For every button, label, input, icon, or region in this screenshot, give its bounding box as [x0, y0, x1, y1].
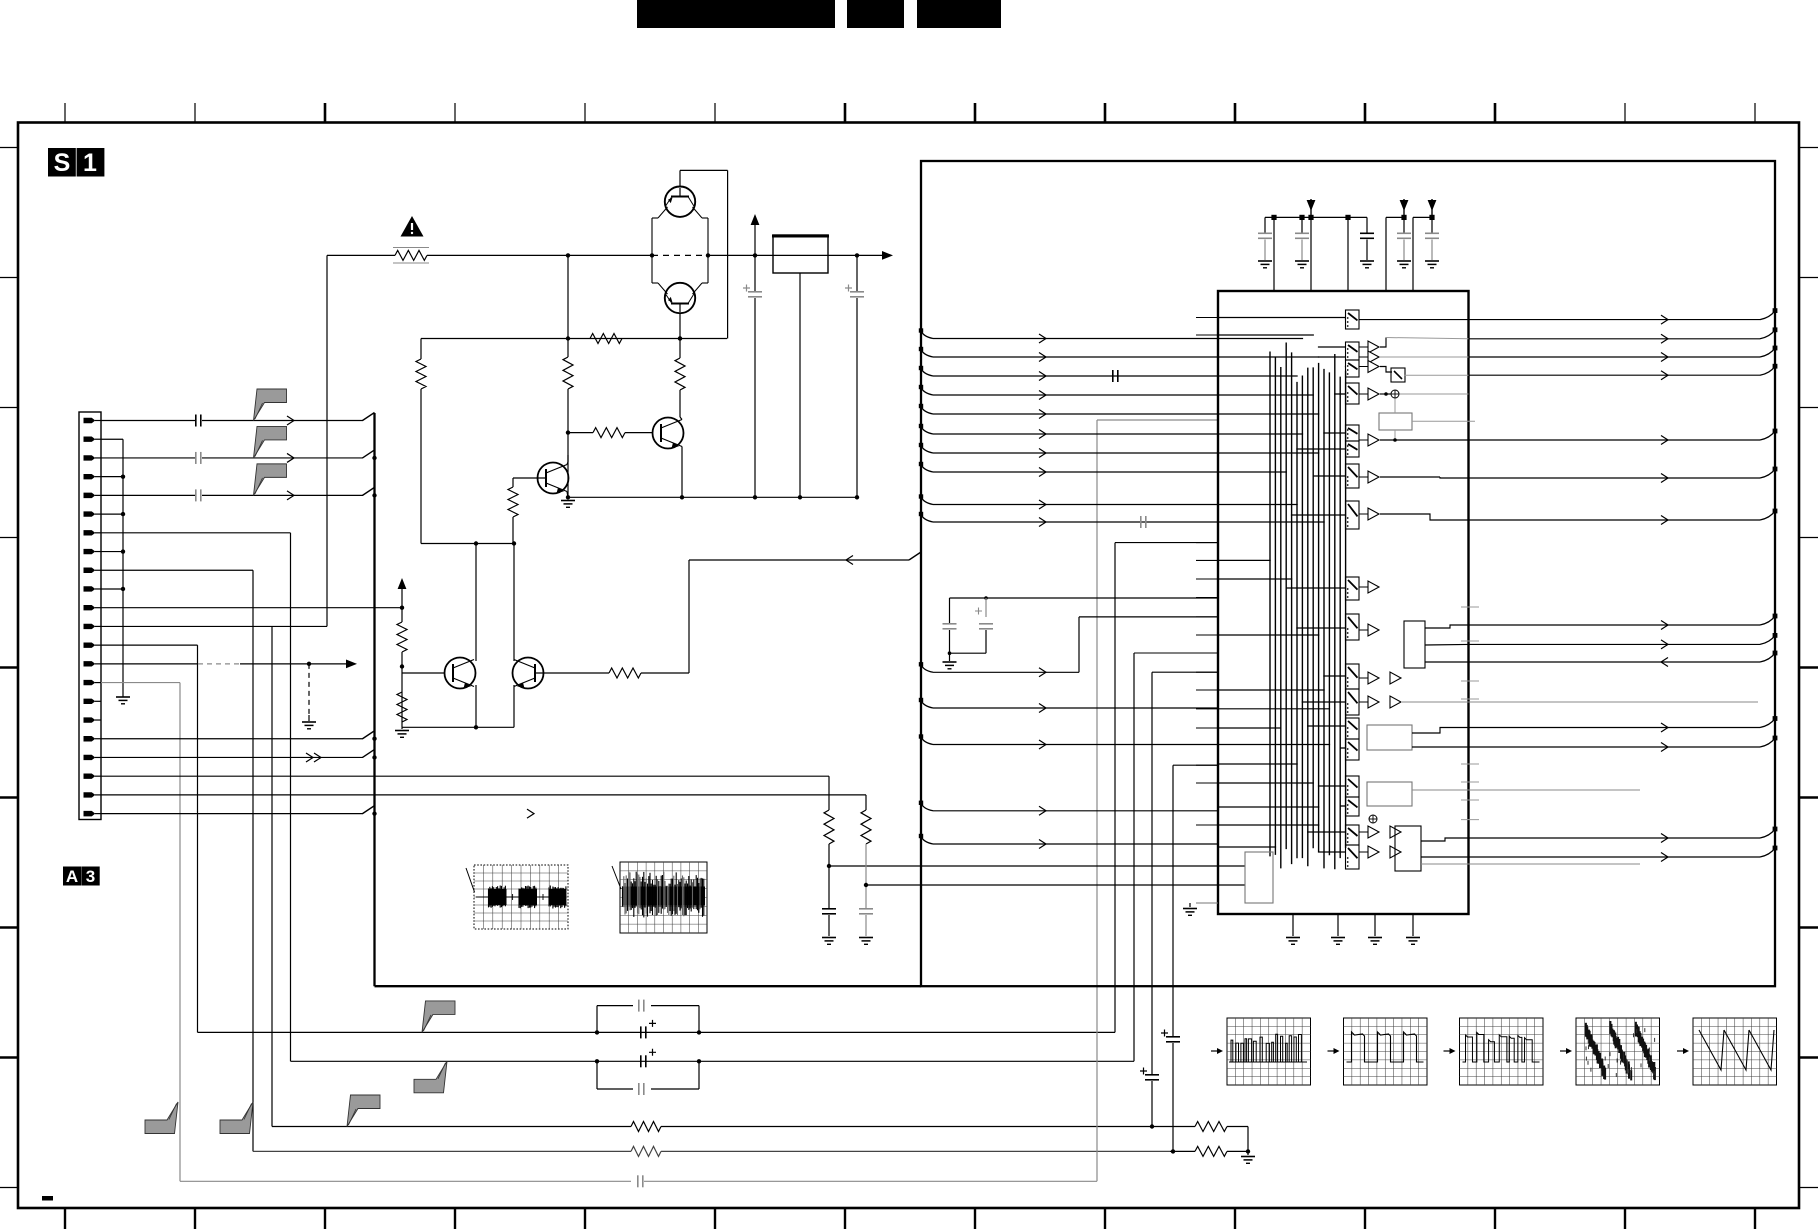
transistor Q3 [653, 418, 684, 449]
riser x1173 with cap C11 [1172, 1043, 1174, 1151]
redacted title block bar 1 [637, 0, 835, 28]
wire pin9 down to lower net [101, 569, 253, 571]
wire x680 [679, 339, 681, 359]
IC sub-block B1 [1391, 368, 1405, 382]
capacitor C4 on x755 [748, 291, 762, 293]
wire pin15 grey down to lower net [101, 682, 180, 684]
decoupling caps C14/C15 [950, 597, 1219, 599]
waveform scope W4 [1560, 1050, 1570, 1052]
junction bus pin5 [372, 493, 376, 497]
wire pin22 to bus [101, 813, 363, 815]
signal flag marker F6 [347, 1095, 380, 1127]
IC internal wire bundle [1269, 352, 1271, 857]
output arrow main wire [882, 251, 893, 260]
Q4 base wire [513, 477, 546, 479]
wire pin7 down to lower net [101, 532, 291, 534]
wire x755 down [754, 255, 756, 291]
Q5 base wire [402, 672, 445, 674]
rail y727 [402, 726, 514, 728]
transistor Q5 [445, 658, 476, 689]
Q5 emitter drop [475, 685, 477, 727]
oscillogram scope B [620, 862, 707, 933]
Q3 collector [680, 417, 682, 420]
junction x568 [566, 430, 570, 434]
ground G2 (dashed branch) [302, 721, 316, 723]
ground G3 [567, 497, 569, 499]
Q6 collector riser [513, 544, 515, 662]
connector J1 (22-pin) [79, 412, 101, 820]
wire pin12 to upper rail [101, 625, 327, 627]
cable bus B1 bottom run [375, 985, 922, 987]
net N1 with parallel caps C6/C7 [198, 1031, 1116, 1033]
IC sub-block B4 [1367, 725, 1412, 750]
waveform scope W2 [1328, 1050, 1338, 1052]
resistor R8 [397, 622, 407, 652]
IC pin stub wires [1196, 317, 1218, 319]
grey link wires [1401, 701, 1758, 703]
net N4 with resistors R13/R14 [253, 1150, 631, 1152]
cable bus B1 vertical [373, 413, 375, 986]
bus entry wires to IC [921, 331, 933, 339]
IC buffer amplifiers [1359, 346, 1368, 348]
net N5 grey return [180, 1180, 631, 1182]
ground G6 [1189, 903, 1191, 907]
svg-text:3: 3 [86, 867, 95, 886]
wire R6 to Q3 [625, 432, 653, 434]
waveform scope W5 [1677, 1050, 1687, 1052]
bus entry y560 [909, 552, 921, 560]
Q4 emitter wire [567, 492, 568, 498]
wire pin20 long to filter R [101, 775, 829, 777]
IC sub-block B7 [1245, 852, 1273, 903]
bottom-left page mark [42, 1196, 53, 1201]
junction y338 [566, 336, 570, 340]
IC selector switches [1346, 310, 1360, 329]
signal flag marker F8 [220, 1102, 253, 1134]
main supply wire [327, 254, 395, 256]
wire R7 stub [512, 478, 514, 487]
sum node S1 wiring [1380, 393, 1391, 395]
IC U1 outline [1218, 291, 1469, 914]
sheet label S1 [48, 148, 76, 177]
resistor R6 [593, 428, 625, 438]
signal flag marker F5 [414, 1061, 447, 1093]
riser top links [1115, 542, 1218, 544]
wire pin13 down to lower net [101, 644, 198, 646]
Q6 output wire [536, 672, 609, 674]
sheet label A3 [63, 867, 81, 886]
IC sub-block B2 [1379, 413, 1412, 430]
wire pin5 to bus with coupling cap C3 [101, 494, 195, 496]
filter R15/C16 net into IC [828, 776, 830, 810]
riser x1115 [1114, 543, 1116, 1033]
resistor R3 [563, 357, 573, 389]
oscillogram scope A [474, 865, 568, 929]
capacitor C5 on x857 [850, 291, 864, 293]
wire pin19 to bus with double chevron [101, 756, 363, 758]
bias arrow up [401, 585, 403, 608]
Q5 collector riser [475, 544, 477, 662]
darlington pair Q1/Q2 [665, 187, 695, 217]
resistor R5 vertical left [416, 359, 426, 389]
resistor R4 [675, 358, 685, 390]
IC sub-block B3 [1404, 621, 1425, 668]
svg-text:S: S [54, 149, 71, 177]
wire pin18 to bus [101, 738, 363, 740]
Q6 emitter drop [513, 685, 515, 727]
warning triangle symbol [401, 216, 424, 237]
resistor R7 [508, 487, 518, 517]
inline cap C12 [1112, 370, 1114, 382]
wire y432 base [568, 432, 593, 434]
signal flag marker F2 [254, 426, 287, 458]
net N3 with resistors R11/R12 [272, 1126, 631, 1128]
sum node S2 [1369, 815, 1377, 823]
wire pin21 long to filter R [101, 794, 866, 796]
connector ground bus wire [101, 438, 123, 440]
wire x568 mid [567, 389, 569, 497]
IC output link wires [1359, 319, 1469, 321]
Q4 collector wire [567, 462, 568, 465]
rail y497 [568, 496, 857, 498]
IC sub-block B5 [1367, 782, 1412, 806]
waveform scope W1 [1211, 1050, 1221, 1052]
wire x857 down [856, 255, 858, 291]
wire x402 [401, 608, 403, 622]
wire x421 [420, 339, 422, 360]
IC internal cross wires [1344, 318, 1347, 320]
signal flag marker F7 [145, 1102, 178, 1134]
wire to box y560 [641, 672, 689, 674]
wire y338 [421, 338, 727, 340]
riser x1152 with cap C10 [1151, 1081, 1153, 1127]
svg-text:A: A [66, 867, 78, 886]
module box U2 [773, 235, 828, 273]
ground G1 [116, 696, 130, 698]
decoupling capacitor bank [1264, 217, 1266, 232]
wire pin3 to bus with coupling cap C2 [101, 457, 195, 459]
Q3 emitter wire [681, 447, 683, 498]
IC output wires to right bus [1469, 319, 1761, 321]
IC sub-block B6 [1395, 826, 1421, 871]
junction main wire [566, 253, 570, 257]
transistor Q6 [513, 658, 544, 689]
resistor R2 [590, 334, 622, 344]
redacted title block bar 2 [847, 0, 904, 28]
arrow left on y560 [846, 556, 853, 565]
wire pin14 dashed with arrow [101, 663, 198, 665]
svg-text:1: 1 [83, 149, 97, 177]
sum node S1 [1391, 390, 1399, 398]
ground G5 [1247, 1151, 1249, 1155]
supply arrow up [754, 225, 756, 255]
main block outline [921, 161, 1775, 986]
wire x568 upper [567, 255, 569, 357]
resistor R10 [609, 668, 641, 678]
filter R16/C17 net into IC [865, 795, 867, 810]
transistor Q4 [538, 463, 569, 494]
signal flag marker F4 [422, 1001, 455, 1033]
signal flag marker F1 [254, 389, 287, 421]
IC ground pins [1292, 914, 1294, 936]
signal flag marker F3 [254, 464, 287, 496]
riser x1134 [1133, 653, 1135, 1061]
junction bus pin3 [372, 456, 376, 460]
inline cap C13 [1140, 516, 1142, 528]
wire pin11 to bias node [101, 607, 402, 609]
waveform scope W3 [1444, 1050, 1454, 1052]
wire pin1 to bus with coupling cap C1 [101, 420, 195, 422]
redacted title block bar 3 [917, 0, 1001, 28]
fusible resistor R1 [395, 250, 427, 260]
rail y543 [421, 543, 514, 545]
resistor R9 [397, 692, 407, 722]
net N2 with parallel caps C8/C9 [291, 1060, 1135, 1062]
ground G4 [401, 727, 403, 729]
wire box down [799, 273, 801, 497]
